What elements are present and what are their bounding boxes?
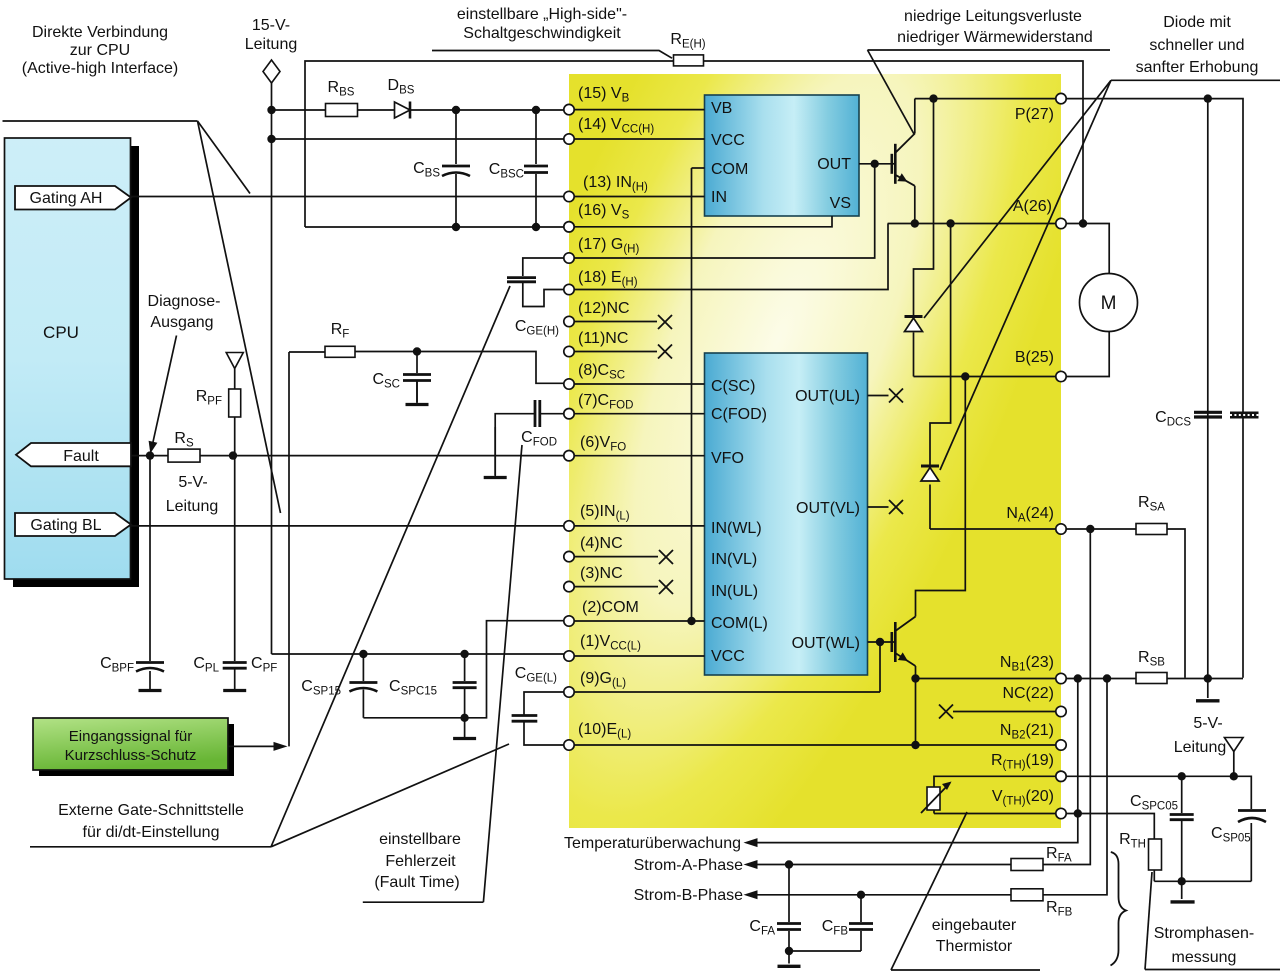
- svg-text:Temperaturüberwachung: Temperaturüberwachung: [564, 835, 741, 852]
- svg-text:Fehlerzeit: Fehlerzeit: [385, 853, 456, 870]
- svg-text:M: M: [1101, 293, 1117, 314]
- svg-text:IN(VL): IN(VL): [711, 551, 757, 568]
- svg-text:Gating AH: Gating AH: [30, 190, 103, 207]
- svg-text:Leitung: Leitung: [166, 498, 219, 515]
- svg-text:einstellbare „High-side"-: einstellbare „High-side"-: [457, 6, 627, 23]
- svg-text:NB2(21): NB2(21): [1000, 722, 1054, 742]
- svg-text:(Fault Time): (Fault Time): [374, 874, 459, 891]
- svg-text:COM(L): COM(L): [711, 615, 768, 632]
- svg-text:IN(UL): IN(UL): [711, 583, 758, 600]
- svg-text:5-V-: 5-V-: [178, 474, 207, 491]
- svg-text:NC(22): NC(22): [1002, 685, 1054, 702]
- svg-text:Diagnose-: Diagnose-: [148, 293, 221, 310]
- svg-text:(2)COM: (2)COM: [582, 599, 639, 616]
- svg-text:5-V-: 5-V-: [1193, 715, 1222, 732]
- svg-text:Leitung: Leitung: [1174, 739, 1227, 756]
- svg-text:VS: VS: [830, 195, 851, 212]
- svg-text:schneller und: schneller und: [1149, 37, 1244, 54]
- svg-text:niedrige Leitungsverluste: niedrige Leitungsverluste: [904, 8, 1082, 25]
- svg-text:IN(WL): IN(WL): [711, 520, 762, 537]
- svg-text:sanfter Erhobung: sanfter Erhobung: [1136, 59, 1259, 76]
- svg-text:eingebauter: eingebauter: [932, 917, 1017, 934]
- svg-text:Externe Gate-Schnittstelle: Externe Gate-Schnittstelle: [58, 802, 244, 819]
- svg-text:(Active-high Interface): (Active-high Interface): [22, 60, 179, 77]
- svg-text:A(26): A(26): [1013, 198, 1052, 215]
- svg-text:einstellbare: einstellbare: [379, 831, 461, 848]
- svg-text:NB1(23): NB1(23): [1000, 654, 1054, 674]
- svg-text:B(25): B(25): [1015, 349, 1054, 366]
- svg-text:niedriger Wärmewiderstand: niedriger Wärmewiderstand: [897, 29, 1093, 46]
- svg-text:Fault: Fault: [63, 448, 99, 465]
- svg-text:Schaltgeschwindigkeit: Schaltgeschwindigkeit: [463, 25, 621, 42]
- svg-text:Strom-B-Phase: Strom-B-Phase: [634, 887, 743, 904]
- svg-text:NA(24): NA(24): [1006, 505, 1054, 525]
- svg-text:(12)NC: (12)NC: [578, 300, 630, 317]
- svg-text:Kurzschluss-Schutz: Kurzschluss-Schutz: [65, 747, 197, 764]
- svg-text:IN: IN: [711, 189, 727, 206]
- svg-text:Ausgang: Ausgang: [150, 314, 213, 331]
- svg-text:(11)NC: (11)NC: [578, 330, 628, 347]
- svg-text:(3)NC: (3)NC: [580, 565, 623, 582]
- svg-text:(4)NC: (4)NC: [580, 535, 623, 552]
- svg-text:OUT(VL): OUT(VL): [796, 500, 860, 517]
- svg-text:P(27): P(27): [1015, 106, 1054, 123]
- svg-text:CPU: CPU: [43, 323, 79, 342]
- svg-text:VFO: VFO: [711, 450, 744, 467]
- svg-text:zur CPU: zur CPU: [70, 42, 130, 59]
- svg-text:Strom-A-Phase: Strom-A-Phase: [634, 857, 743, 874]
- svg-text:Diode mit: Diode mit: [1163, 14, 1231, 31]
- svg-text:OUT: OUT: [817, 156, 851, 173]
- svg-text:Direkte Verbindung: Direkte Verbindung: [32, 24, 168, 41]
- svg-text:Gating BL: Gating BL: [30, 517, 101, 534]
- svg-text:C(SC): C(SC): [711, 378, 755, 395]
- svg-text:OUT(WL): OUT(WL): [792, 635, 860, 652]
- svg-text:COM: COM: [711, 161, 748, 178]
- svg-text:Eingangssignal für: Eingangssignal für: [69, 728, 192, 745]
- svg-text:VCC: VCC: [711, 648, 745, 665]
- svg-text:messung: messung: [1172, 949, 1237, 966]
- svg-text:VCC: VCC: [711, 132, 745, 149]
- svg-text:VB: VB: [711, 100, 732, 117]
- svg-text:für di/dt-Einstellung: für di/dt-Einstellung: [83, 824, 220, 841]
- svg-text:Leitung: Leitung: [245, 36, 298, 53]
- svg-text:Stromphasen-: Stromphasen-: [1154, 925, 1255, 942]
- svg-text:C(FOD): C(FOD): [711, 406, 767, 423]
- svg-text:OUT(UL): OUT(UL): [795, 388, 860, 405]
- svg-text:Thermistor: Thermistor: [936, 938, 1013, 955]
- svg-text:15-V-: 15-V-: [252, 17, 290, 34]
